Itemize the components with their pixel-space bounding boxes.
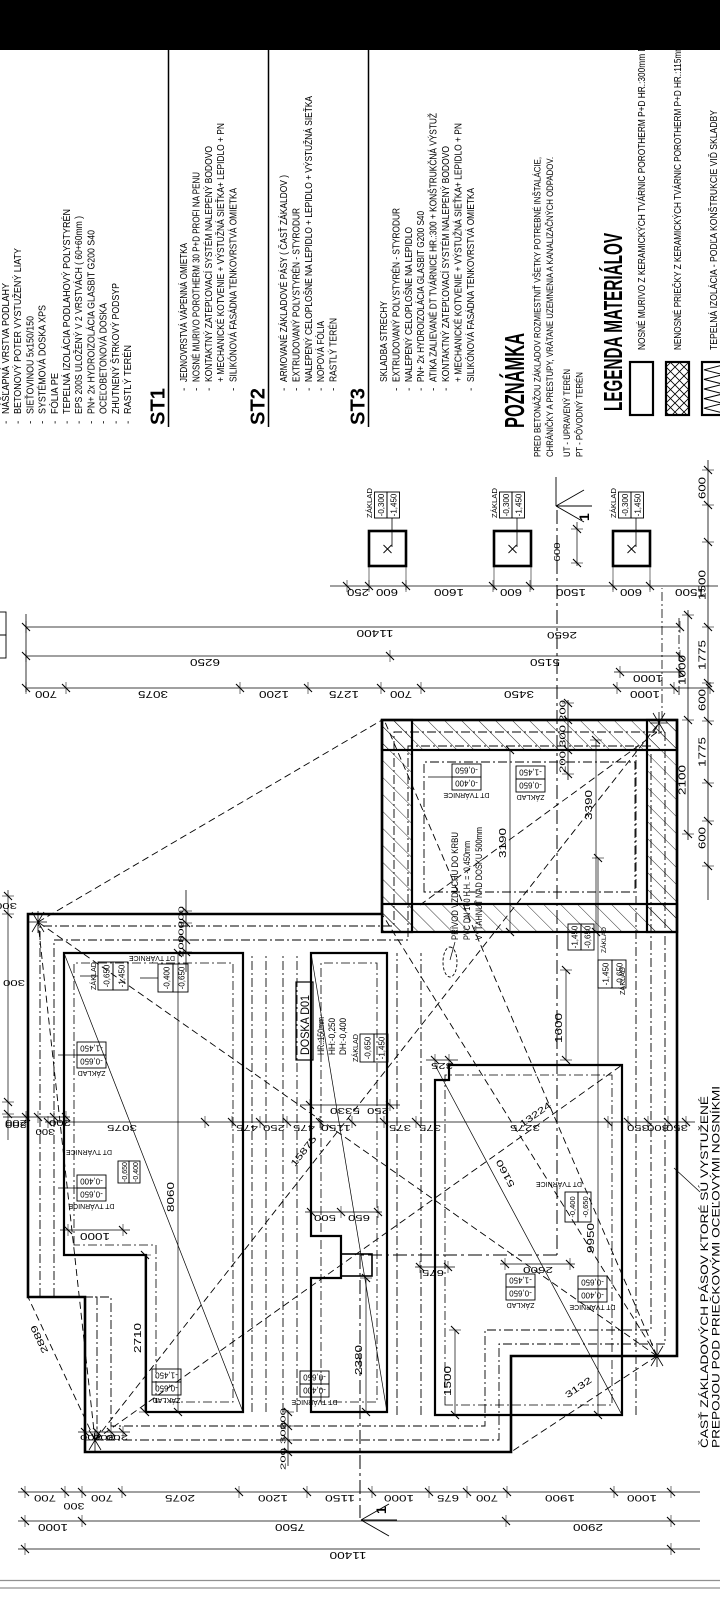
pad P2 leader [516,518,518,547]
svg-text:-: - [229,388,240,391]
svg-text:LEGENDA MATERIÁLOV: LEGENDA MATERIÁLOV [598,233,628,411]
svg-text:ST3: ST3 [348,388,370,425]
dimension chain R4 room chain [22,682,714,700]
svg-text:300: 300 [35,1127,55,1136]
room R1 slab outline [64,953,243,1412]
svg-text:+ MECHANICKÉ KOTVENIE + VÝSTUŽ: + MECHANICKÉ KOTVENIE + VÝSTUŽNÁ SIEŤKA+… [214,123,227,382]
svg-text:1150: 1150 [321,1123,351,1133]
room R1 inner dash-dot [74,963,233,1402]
svg-text:POZNÁMKA: POZNÁMKA [499,333,530,428]
corridor strip lines R1-R2 [251,953,253,1412]
svg-text:PRÍVOD VZDUCHU DO KRBU: PRÍVOD VZDUCHU DO KRBU [450,832,460,940]
dimension chain R2 total 11400 [22,621,684,639]
svg-text:-0,650: -0,650 [509,1289,532,1298]
svg-text:VYŤAHNUŤ NAD DOSKU 500mm: VYŤAHNUŤ NAD DOSKU 500mm [474,827,484,940]
svg-text:-: - [466,388,477,391]
junction star S2 [86,1429,104,1451]
svg-text:-1,450: -1,450 [80,1044,103,1053]
wing cross diagonal [420,730,660,905]
svg-text:DT TVÁRNICE: DT TVÁRNICE [68,1202,114,1211]
dimension chain mini 675 [415,1261,455,1277]
svg-text:11400: 11400 [329,1549,366,1561]
mini chain pad width 600 [552,522,583,567]
svg-text:DH:-0,400: DH:-0,400 [338,1018,348,1055]
strip below R3 [635,746,637,1415]
dim 3390 wing [583,736,602,936]
svg-text:ZÁKLAD: ZÁKLAD [78,1069,106,1078]
svg-text:OCEĽOBETONOVÁ DOSKA: OCEĽOBETONOVÁ DOSKA [97,303,110,414]
dimension chain L3 total 11400 [18,1543,700,1561]
svg-text:NALEPENÝ CELOPLOŠNE NA LEPIDLO: NALEPENÝ CELOPLOŠNE NA LEPIDLO + LEPIDLO… [302,96,315,382]
svg-text:SILIKÓNOVÁ FASÁDNA TENKOVRSTVÁ: SILIKÓNOVÁ FASÁDNA TENKOVRSTVÁ OMIETKA [227,188,240,382]
svg-text:-0,400: -0,400 [80,1177,103,1186]
foundation strip dash-dot outer loop [40,732,665,1440]
svg-text:-: - [304,388,315,391]
clipped label box at top edge [0,635,6,658]
svg-text:-1,450: -1,450 [602,962,611,985]
svg-text:3390: 3390 [583,790,595,820]
svg-text:-: - [74,421,85,424]
dimension chain V2 partial [300,1099,400,1116]
svg-text:NOPOVÁ FÓLIA: NOPOVÁ FÓLIA [314,321,327,382]
svg-text:PN+ 2x HYDROIZOLÁCIA GLASBIT G: PN+ 2x HYDROIZOLÁCIA GLASBIT G200 S40 [414,211,427,382]
svg-text:-0,400: -0,400 [581,1291,604,1300]
dimension chain mini top wall [3,1111,71,1127]
svg-text:1900: 1900 [545,1492,575,1503]
label wing left lbl [568,924,594,950]
svg-text:ST1: ST1 [148,388,170,425]
dimension chain B2 wing [677,610,695,840]
svg-text:NOSNÉ MURIVO Z KERAMICKÝCH TVÁ: NOSNÉ MURIVO Z KERAMICKÝCH TVÁRNIC POROT… [635,40,648,350]
svg-text:UT - UPRAVENÝ TERÉN: UT - UPRAVENÝ TERÉN [562,369,573,457]
pad P1 extension lines [368,566,370,590]
legend swatch nosné murivo [630,40,653,415]
svg-text:1775: 1775 [697,640,709,670]
svg-text:-0,650: -0,650 [303,1373,326,1382]
dimension chain V1 mid plan [44,1116,695,1133]
pad P3 extension lines [612,566,614,590]
label ZÁKLAD bl [152,1369,181,1405]
dimension chain wing wall mini [559,699,575,780]
svg-text:600: 600 [552,542,562,561]
foundation pad P2 [494,531,531,566]
note ČASŤ ZÁKLADOVÝCH [674,1086,720,1448]
svg-text:ZÁKLAD: ZÁKLAD [507,1301,535,1310]
svg-text:ZÁKLAD: ZÁKLAD [153,1396,181,1405]
svg-text:500: 500 [313,1213,336,1222]
svg-text:3075: 3075 [107,1123,137,1133]
svg-text:9950: 9950 [585,1223,597,1253]
svg-text:-: - [404,388,415,391]
svg-text:ZÁKLAD: ZÁKLAD [351,1034,360,1062]
label pad P3 ZÁKLAD [609,487,644,518]
label ZÁKLAD b2 [506,1274,535,1310]
svg-text:375: 375 [419,1123,441,1133]
svg-text:1000: 1000 [80,1230,110,1242]
svg-text:1200: 1200 [258,1492,288,1503]
svg-text:2380: 2380 [353,1345,365,1375]
svg-text:EXTRUDOVANÝ POLYSTYRÉN - STYR: EXTRUDOVANÝ POLYSTYRÉN - STYRODUR [289,208,302,382]
svg-text:250: 250 [263,1123,285,1133]
svg-text:-: - [111,421,122,424]
svg-text:-0,650: -0,650 [178,966,187,989]
svg-text:-1,450: -1,450 [155,1371,178,1380]
svg-text:1200: 1200 [259,688,289,700]
setting-out diagonal 13224 [382,914,657,1356]
svg-text:-1,450: -1,450 [378,1036,387,1059]
svg-text:-: - [191,388,202,391]
setting-out diagonal room3 5160 [435,1065,622,1415]
svg-text:-: - [50,421,61,424]
off-page black band [0,0,720,50]
dimension chain top-left wall mini [78,1426,130,1442]
svg-text:-0,650: -0,650 [103,964,112,987]
dimension chain left wall mini [279,1408,295,1470]
svg-text:1000: 1000 [384,1492,414,1503]
svg-text:200: 200 [177,906,186,928]
legend swatch nenosné priečky [666,45,689,415]
label DT TVÁRNICE top wall [68,1175,114,1211]
label DT b2 [569,1276,615,1312]
wing wall hatched band right [382,720,677,750]
svg-text:300: 300 [559,724,568,747]
dimension chain mini 2600 [500,1258,575,1275]
svg-text:-: - [25,421,36,424]
wing inner dash-dot [424,762,635,892]
svg-text:-0,650: -0,650 [80,1190,103,1199]
svg-text:ZÁKLAD: ZÁKLAD [599,927,608,953]
svg-text:ČASŤ ZÁKLADOVÝCH PÁSOV KTORÉ S: ČASŤ ZÁKLADOVÝCH PÁSOV KTORÉ SÚ VYSTUŽEN… [698,1096,711,1448]
svg-text:475: 475 [236,1123,258,1133]
svg-text:1: 1 [576,513,592,521]
svg-text:-0,400: -0,400 [133,1162,140,1182]
svg-text:2100: 2100 [677,765,689,795]
svg-text:ZÁKLAD: ZÁKLAD [609,487,618,518]
page left edge shadow lines [0,1587,720,1589]
svg-text:6250: 6250 [190,656,220,668]
svg-text:-0,650: -0,650 [584,925,593,948]
svg-text:350: 350 [666,1123,688,1133]
svg-text:ZÁKLAD: ZÁKLAD [517,793,545,802]
svg-text:EXTRUDOVANÝ POLYSTYRÉN - STYR: EXTRUDOVANÝ POLYSTYRÉN - STYRODUR [389,208,402,382]
svg-text:200: 200 [559,750,568,773]
svg-text:-1,450: -1,450 [118,964,127,987]
svg-text:1500: 1500 [556,586,586,598]
svg-text:200: 200 [4,1120,27,1129]
svg-text:-: - [391,388,402,391]
svg-text:200: 200 [106,1433,128,1442]
svg-text:SIEŤOVINOU 5x150/150: SIEŤOVINOU 5x150/150 [23,316,36,414]
svg-text:475: 475 [293,1123,315,1133]
svg-text:SILIKÓNOVÁ FASÁDNA TENKOVRSTVÁ: SILIKÓNOVÁ FASÁDNA TENKOVRSTVÁ OMIETKA [464,188,477,382]
svg-text:-: - [123,421,134,424]
svg-text:2650: 2650 [547,629,577,640]
svg-text:-: - [316,388,327,391]
svg-text:NOSNÉ MURIVO POROTHERM 30 P+D: NOSNÉ MURIVO POROTHERM 30 P+D PROFI NA P… [189,172,202,382]
dimension chain R3 6250/5150 [22,650,684,668]
svg-text:650: 650 [347,1213,370,1222]
svg-text:300: 300 [64,1500,85,1511]
svg-text:-0,650: -0,650 [80,1057,103,1066]
svg-text:675: 675 [421,1268,444,1277]
label pad P2 ZÁKLAD [490,487,525,518]
svg-text:5330: 5330 [330,1106,360,1116]
notes: floor composition list [0,209,134,424]
svg-text:NÁŠĽAPNÁ VRSTVA PODLAHY: NÁŠĽAPNÁ VRSTVA PODLAHY [0,283,12,414]
svg-text:-: - [38,421,49,424]
dim 9950 [585,854,604,1419]
svg-text:1775: 1775 [697,737,709,767]
label PRÍVOD VZDUCHU [443,827,484,977]
svg-text:TEPELNÁ IZOLÁCIA PODLAHOVÝ POL: TEPELNÁ IZOLÁCIA PODLAHOVÝ POLYSTYRÉN [60,209,73,414]
svg-text:SKLADBA STRECHY: SKLADBA STRECHY [379,301,390,382]
svg-text:KONTAKTNÝ ZATEPĽOVACÍ SYSTÉM: KONTAKTNÝ ZATEPĽOVACÍ SYSTÉM NALEPENÝ BO… [439,146,452,382]
svg-text:700: 700 [91,1492,113,1503]
svg-text:-0,650: -0,650 [519,781,542,790]
pad P2 extension lines [493,566,495,590]
room R2 inner dash-dot [321,963,377,1402]
junction star S3 [648,1345,666,1367]
svg-text:ARMOVANÉ ZÁKLADOVÉ PÁSY ( ČAS: ARMOVANÉ ZÁKLADOVÉ PÁSY ( ČASŤ ZÁKALDOV … [277,175,290,382]
svg-text:PREPOJOU POD PRIEČKOVÝMI OCEĽO: PREPOJOU POD PRIEČKOVÝMI OCEĽOVÝMI NOSNÍ… [710,1086,720,1448]
svg-text:PN+ 2x HYDROIZOLÁCIA GLASBIT G: PN+ 2x HYDROIZOLÁCIA GLASBIT G200 S40 [84,230,97,414]
svg-text:DT TVÁRNICE: DT TVÁRNICE [536,1180,582,1189]
room R2 slab outline [311,953,387,1412]
svg-text:ATIKA ZALIEVANÉ DT TVÁRNICE HR: ATIKA ZALIEVANÉ DT TVÁRNICE HR.:300 + KO… [427,113,440,382]
svg-text:-0,650: -0,650 [581,1196,590,1217]
dim 1500 room R3 [442,1326,461,1419]
svg-text:675: 675 [437,1492,459,1503]
svg-text:-0,300: -0,300 [377,493,386,516]
svg-text:1150: 1150 [325,1492,355,1503]
svg-text:CHRÁNIČKY A PRESTUPY, VRÁTANE: CHRÁNIČKY A PRESTUPY, VRÁTANE UZEMNENIA … [545,157,556,457]
svg-text:+ MECHANICKÉ KOTVENIE + VÝSTUŽ: + MECHANICKÉ KOTVENIE + VÝSTUŽNÁ SIEŤKA+… [451,123,464,382]
svg-text:-: - [291,388,302,391]
svg-text:600: 600 [697,827,709,849]
label ZÁKLAD right [598,960,626,988]
svg-text:-0,300: -0,300 [621,493,630,516]
svg-text:PVC DN 160 H.H. = -0,450mm: PVC DN 160 H.H. = -0,450mm [462,841,472,940]
svg-text:-0,400: -0,400 [303,1386,326,1395]
svg-text:DT TVÁRNICE: DT TVÁRNICE [291,1398,337,1407]
dim 2710 [132,1251,151,1416]
svg-text:8060: 8060 [165,1182,177,1212]
svg-text:ZÁKLAD: ZÁKLAD [618,967,627,995]
svg-text:-0,300: -0,300 [502,493,511,516]
svg-text:JEDNOVRSTVÁ VÁPENNÁ OMIETKA: JEDNOVRSTVÁ VÁPENNÁ OMIETKA [177,243,190,382]
label DT TVÁRNICE corridor [66,1148,140,1183]
svg-text:3075: 3075 [138,688,168,700]
svg-text:-1,450: -1,450 [509,1276,532,1285]
label ZÁKLAD r1a [89,962,128,990]
svg-text:600: 600 [620,586,642,598]
svg-text:ZHUTNENÝ ŠTRKOVÝ PODSYP: ZHUTNENÝ ŠTRKOVÝ PODSYP [109,283,122,414]
svg-text:-0,400: -0,400 [568,1196,577,1217]
svg-text:PT - PÔVODNÝ TERÉN: PT - PÔVODNÝ TERÉN [575,372,586,457]
svg-text:-: - [416,388,427,391]
pad P1 leader [391,518,393,547]
dimension chain L1 detail [18,1486,700,1503]
svg-text:200: 200 [48,1118,71,1127]
svg-text:-0,650: -0,650 [455,766,478,775]
notes block ST2 [248,50,340,427]
notes block POZNÁMKA [499,157,586,457]
svg-text:1275: 1275 [329,688,359,700]
label pad P1 ZÁKLAD [365,487,400,518]
svg-text:1000: 1000 [633,672,663,684]
svg-text:200: 200 [559,699,568,722]
svg-text:2075: 2075 [165,1492,195,1503]
dimension chain R5 pads end [614,666,684,684]
svg-text:-1,450: -1,450 [515,493,524,516]
svg-text:-1,450: -1,450 [390,493,399,516]
svg-text:TEPELNÁ IZOLÁCIA - PODĽA KONŠT: TEPELNÁ IZOLÁCIA - PODĽA KONŠTRUKCIE VIĎ… [707,110,720,350]
svg-text:-: - [279,388,290,391]
svg-text:300: 300 [647,1123,669,1133]
wing bottom wall axis dashdot [661,588,663,720]
svg-text:-: - [13,421,24,424]
dimension chain 1000 step [60,1224,130,1242]
svg-text:-: - [429,388,440,391]
excavation diagonal S2-S1 [38,922,95,1440]
fireplace base box [341,1254,372,1276]
svg-text:300: 300 [2,978,25,987]
dimension chain mini notch [305,1206,382,1222]
svg-text:1: 1 [373,1506,389,1514]
setting-out diagonal room1 [64,953,243,1412]
foundation pad P1 [369,531,406,566]
dimension chain L2 1000/7500/2900 [18,1515,700,1533]
section line 1-1 [360,477,592,1536]
label DT TVÁRNICE r1b [158,964,188,992]
svg-text:-1,450: -1,450 [634,493,643,516]
svg-text:600: 600 [697,689,709,711]
dim 8060 room R1 [165,949,184,1416]
svg-text:-: - [62,421,73,424]
svg-text:3450: 3450 [504,688,534,700]
svg-text:1500: 1500 [442,1366,454,1396]
label DT TVÁRNICE wing top [443,764,489,800]
svg-text:-0,400: -0,400 [455,779,478,788]
svg-text:KONTAKTNÝ ZATEPĽOVACÍ SYSTÉM: KONTAKTNÝ ZATEPĽOVACÍ SYSTÉM NALEPENÝ BO… [202,146,215,382]
dim 1600 [553,966,572,1064]
svg-text:-: - [329,388,340,391]
svg-text:700: 700 [35,688,57,700]
svg-text:-: - [1,421,12,424]
svg-text:1000: 1000 [630,688,660,700]
svg-text:FÓLIA PE: FÓLIA PE [48,373,61,414]
excavation diagonal S3-wing corner [385,722,657,1356]
label ZÁKLAD wing [516,766,545,802]
dim 3190 wing [497,746,516,936]
svg-text:BETONOVÝ POTER VYSTUŽENÝ LIATY: BETONOVÝ POTER VYSTUŽENÝ LIATY [11,248,24,414]
svg-text:-0,650: -0,650 [581,1278,604,1287]
diagonal S2-corner 2889 [28,1297,95,1440]
svg-text:600: 600 [697,477,709,499]
svg-text:-0,650: -0,650 [155,1384,178,1393]
diagonal S3-corner 3132 [511,1356,657,1452]
svg-text:600: 600 [376,586,398,598]
svg-text:DT TVÁRNICE: DT TVÁRNICE [66,1148,112,1157]
notes block ST3 [348,50,477,427]
wing wall hatched band top [382,720,412,932]
svg-text:HR.:150mm: HR.:150mm [316,1017,326,1055]
svg-text:SYSTÉMOVÁ DOSKA XPS: SYSTÉMOVÁ DOSKA XPS [36,305,49,414]
label ZÁKLAD mid [351,1034,388,1062]
svg-text:ZÁKLAD: ZÁKLAD [490,487,499,518]
room R3 slab outline [435,1065,622,1415]
legend swatch tepelná izolácia [702,110,720,415]
svg-text:-0,400: -0,400 [163,966,172,989]
pad P3 leader [635,518,637,547]
svg-text:1000: 1000 [627,1492,657,1503]
excavation diagonal S3-S1 [38,922,657,1356]
foundation pad P3 [613,531,650,566]
setting-out diagonal room2 [311,953,387,1412]
excavation diagonal S1-wing corner [38,720,382,922]
svg-text:250: 250 [347,586,369,598]
svg-text:RASTLÝ TERÉN: RASTLÝ TERÉN [121,345,134,414]
label DT bl [291,1371,337,1407]
svg-text:-1,450: -1,450 [571,925,580,948]
svg-text:325: 325 [430,1061,453,1070]
svg-text:1600: 1600 [434,586,464,598]
svg-text:2900: 2900 [573,1521,603,1533]
svg-text:NALEPENÝ CELOPLOŠNE NA LEPIDLO: NALEPENÝ CELOPLOŠNE NA LEPIDLO [402,227,415,382]
svg-text:ST2: ST2 [248,388,270,425]
svg-text:7500: 7500 [275,1521,305,1533]
svg-text:3190: 3190 [497,828,509,858]
svg-text:DOSKA D01: DOSKA D01 [298,995,312,1055]
dimension chain R1 pads [330,580,718,598]
svg-text:5150: 5150 [530,656,560,668]
svg-text:EPS 200S ULOŽENÝ V 2 VRSTVÁCH: EPS 200S ULOŽENÝ V 2 VRSTVÁCH ( 60+60mm … [72,216,85,414]
svg-text:200: 200 [279,1408,288,1430]
excavation diagonal S2-S4 long [95,723,659,1440]
foundation strip dash-dot inner loop [54,746,651,1426]
setting-out diagonal 15875 [95,1065,622,1440]
svg-text:-: - [204,388,215,391]
junction star S4 [650,712,668,734]
svg-text:200: 200 [279,1448,288,1470]
svg-text:-: - [99,421,110,424]
svg-text:ZÁKLAD: ZÁKLAD [365,487,374,518]
svg-text:1600: 1600 [553,1013,565,1043]
label ZÁKLAD top wall [77,1042,106,1078]
chain ends connector [25,614,27,692]
svg-text:DT TVÁRNICE: DT TVÁRNICE [129,954,175,963]
dimension chain mini 325 [426,1054,458,1070]
top mini chain [0,890,27,1140]
svg-text:700: 700 [390,688,412,700]
svg-text:1500: 1500 [697,570,709,600]
building outer foundation outline [28,720,677,1452]
svg-text:NENOSNÉ PRIEČKY Z KERAMICKÝCH: NENOSNÉ PRIEČKY Z KERAMICKÝCH TVÁRNIC PO… [671,45,684,350]
svg-text:PRED BETONÁŽOU ZÁKLADOV ROZMIE: PRED BETONÁŽOU ZÁKLADOV ROZMIESTNIŤ VŠET… [533,157,544,457]
wing wall hatched band bottom [647,720,677,932]
svg-text:300: 300 [0,901,17,910]
svg-text:RASTLÝ TERÉN: RASTLÝ TERÉN [327,318,340,382]
svg-text:-0,650: -0,650 [122,1162,129,1182]
svg-text:11400: 11400 [356,627,393,639]
svg-text:-1,450: -1,450 [519,768,542,777]
label DT TVÁRNICE mid [536,1180,591,1222]
chain end connector dashdot [678,615,680,695]
svg-text:375: 375 [389,1123,411,1133]
svg-text:350: 350 [627,1123,649,1133]
svg-text:250: 250 [367,1106,389,1116]
dimension chain right wall mini [177,890,193,972]
